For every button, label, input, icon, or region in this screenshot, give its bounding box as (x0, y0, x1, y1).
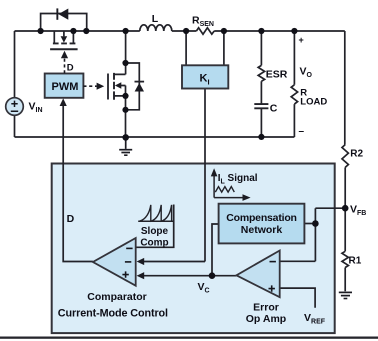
svg-text:C: C (270, 103, 278, 115)
arrow IL axis right (243, 194, 251, 201)
resistor RLOAD (291, 85, 297, 104)
pin comparator plus (122, 271, 128, 277)
pin error amp plus (269, 285, 275, 291)
wire dashed PWM to Q2 gate (83, 85, 96, 87)
op-amp error amplifier (236, 251, 279, 298)
transistor Q1 PMOS (54, 31, 73, 43)
node ESR bottom (258, 134, 264, 140)
dashed gate drives (65, 59, 97, 87)
arrow D to Q1 gate (61, 51, 68, 58)
resistor ESR (258, 65, 264, 81)
node Q2 drain (122, 60, 128, 66)
svg-text:Slope: Slope (141, 226, 169, 237)
block Ki current sense gain (182, 65, 228, 88)
svg-text:ESR: ESR (266, 69, 288, 81)
wire slope comp input (136, 205, 174, 248)
svg-text:VIN: VIN (29, 101, 43, 115)
svg-text:–: – (299, 126, 305, 137)
svg-text:R2: R2 (350, 149, 363, 160)
arrow PWM to Q2 gate (97, 83, 105, 90)
svg-text:Network: Network (241, 224, 283, 236)
capacitor C (254, 104, 268, 108)
wire load branch (293, 31, 295, 137)
svg-text:Comparator: Comparator (87, 291, 147, 303)
svg-text:Compensation: Compensation (226, 212, 297, 224)
node diode right (83, 28, 89, 34)
svg-text:D: D (67, 62, 74, 73)
pin comparator minus mid (125, 261, 131, 263)
ground GND2 under R1 (339, 292, 352, 298)
svg-text:PWM: PWM (52, 81, 79, 93)
wire compensation network output (304, 223, 315, 225)
wire comparator output D (63, 106, 93, 262)
svg-text:D: D (67, 213, 75, 225)
resistor R1 (342, 251, 348, 267)
wire Ki output to comparator (144, 89, 206, 262)
wire VIN leads (14, 31, 16, 137)
svg-text:R1: R1 (349, 255, 362, 266)
svg-text:+: + (299, 35, 304, 45)
transistor Q1 body arrow (61, 36, 68, 42)
node VFB (342, 205, 349, 212)
diode D2 arrow (135, 83, 144, 92)
node Q2 source (122, 93, 128, 99)
waveform slope comp (138, 220, 174, 222)
block compensation network (219, 204, 305, 244)
svg-text:Current-Mode Control: Current-Mode Control (58, 307, 168, 319)
node compensation output (312, 220, 319, 227)
op-amp comparator (93, 238, 136, 286)
pin error amp minus (270, 261, 276, 263)
wire top rail (15, 30, 345, 32)
arrow VC into comparator (137, 272, 145, 279)
node ESR top (258, 28, 264, 34)
svg-text:Op Amp: Op Amp (246, 313, 286, 325)
node IL signal axes (214, 176, 243, 198)
arrow comparator output into PWM (60, 98, 67, 106)
svg-text:L: L (152, 13, 159, 25)
svg-text:VO: VO (300, 65, 313, 79)
wire bottom rail (15, 136, 295, 138)
svg-text:Error: Error (253, 301, 279, 313)
wire switch node (125, 31, 127, 74)
opamp input signs (122, 248, 276, 291)
node RSEN right (221, 28, 227, 34)
wire dashed D to Q1 gate (64, 59, 66, 74)
wire ESR/C branch (260, 31, 262, 137)
node diode left (38, 28, 44, 34)
figure rule bottom (0, 337, 378, 339)
svg-text:RSEN: RSEN (192, 15, 214, 29)
diode D1 loop over PMOS (41, 14, 87, 32)
svg-text:LOAD: LOAD (300, 96, 327, 107)
wire VC to comparator plus input (144, 275, 237, 277)
pwm U1 (45, 74, 84, 98)
wire VFB to error amp minus (280, 208, 346, 261)
source VIN (6, 98, 24, 116)
node ground rail (122, 134, 129, 141)
node RSEN left (183, 28, 189, 34)
arrow Ki signal into comparator (137, 258, 145, 265)
arrow IL axis up (211, 168, 218, 176)
transistor Q2 body arrow (115, 82, 121, 88)
node Q1 drain (70, 28, 76, 34)
node Q2 bottom (122, 107, 128, 113)
node output plus (291, 28, 297, 34)
transistor Q2 NMOS (107, 74, 109, 100)
svg-text:Comp: Comp (140, 238, 168, 249)
wire right branch (344, 31, 346, 291)
wire error amp plus to VREF (280, 288, 315, 308)
wire Ki inputs (186, 31, 224, 65)
pin comparator minus top (126, 247, 132, 249)
inductor L (140, 25, 172, 31)
waveform IL sawtooth (215, 187, 234, 193)
resistor RSEN (196, 28, 214, 34)
diode D1 arrow (58, 9, 68, 20)
svg-text:VFB: VFB (350, 204, 366, 218)
resistor R2 (342, 145, 348, 168)
node switch (123, 28, 129, 34)
node VC (209, 272, 216, 279)
wire VC to compensation network (212, 224, 219, 276)
control box Current-Mode Control (52, 164, 335, 334)
diode D2 body diode (126, 63, 140, 110)
ground GND1 under Q2 (119, 137, 132, 155)
